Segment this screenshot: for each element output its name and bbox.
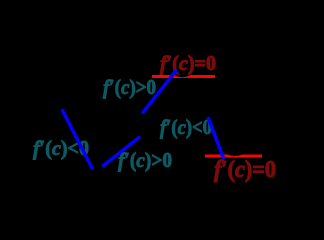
svg-text:f′(c)<0: f′(c)<0 xyxy=(160,115,212,139)
blue tangent segment, f'>0 region (lower) xyxy=(104,138,140,166)
blue tangent segment, f'<0 region (right) xyxy=(209,119,224,158)
svg-text:f′(c)=0: f′(c)=0 xyxy=(214,157,276,183)
blue tangent segment, f'>0 region (upper) xyxy=(143,72,176,113)
black curve (invisible occluder over red tangent lines) xyxy=(173,66,193,77)
red horizontal tangent line at local max xyxy=(152,75,215,78)
svg-text:f′(c)>0: f′(c)>0 xyxy=(103,75,156,99)
svg-text:f′(c)=0: f′(c)=0 xyxy=(160,51,216,75)
svg-text:f′(c)>0: f′(c)>0 xyxy=(118,148,172,172)
red horizontal tangent line at local min xyxy=(205,155,262,158)
blue tangent segment, f'<0 region (left) xyxy=(63,111,93,169)
